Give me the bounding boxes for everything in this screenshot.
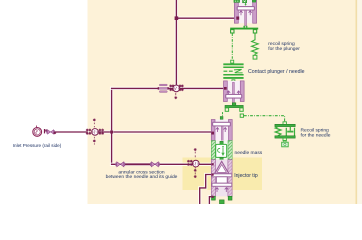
star — [54, 132, 56, 134]
junction A stars — [86, 119, 104, 145]
needle rod green tab — [220, 117, 223, 120]
top piston left port — [236, 17, 239, 20]
wire: riser from junction dot up to plunger branch — [110, 88, 113, 132]
recoil spring for the needle (spring-damper) — [275, 122, 295, 147]
needle mass top tab — [220, 141, 223, 144]
svg-text:for the plunger: for the plunger — [268, 46, 300, 52]
hard stop (Contact plunger / needle) — [223, 60, 243, 82]
bracket 1 (plunger rod) — [230, 26, 258, 33]
bracket 2 (contact rod) — [225, 103, 243, 112]
beige area right border — [356, 0, 358, 204]
top piston walls — [234, 0, 238, 23]
yellow highlight area (injector tip) — [183, 158, 263, 191]
svg-text:between the needle and its gui: between the needle and its guide — [106, 174, 178, 180]
wire: junction A to needle piston — [99, 130, 211, 133]
green rod-port stem — [245, 3, 247, 5]
annular orifice 1 — [115, 162, 125, 167]
junction C circle — [192, 160, 199, 167]
injector tip bottom tabs — [212, 196, 216, 200]
needle piston left port — [211, 132, 214, 135]
injector tip side ports — [212, 163, 214, 165]
contact piston arrows — [227, 91, 230, 96]
top piston rod — [245, 10, 247, 26]
top piston bar — [237, 7, 254, 11]
wire: branch to top piston — [176, 17, 236, 20]
wire: drop from junction dot to annular line — [110, 132, 113, 164]
needle piston walls — [211, 120, 215, 141]
contact piston bore — [227, 81, 240, 102]
needle piston bore — [215, 120, 228, 141]
injector tip box — [216, 177, 227, 183]
contact piston rod — [233, 82, 235, 94]
dash-dot link to needle recoil spring — [240, 114, 243, 117]
beige area right margin — [357, 0, 362, 204]
injector tip hatched walls — [211, 160, 215, 197]
port tick after source — [44, 129, 45, 133]
svg-text:recoil spring: recoil spring — [268, 41, 295, 47]
pressure source (Inlet Pressure) — [33, 126, 42, 137]
star — [45, 129, 47, 131]
svg-text:Contact plunger / needle: Contact plunger / needle — [248, 69, 305, 75]
junction C stars — [187, 148, 196, 177]
junction dot node — [110, 131, 113, 134]
injector tip needle cone — [215, 161, 229, 173]
annular orifice 2 — [150, 162, 160, 167]
injector tip bar 2 — [212, 183, 232, 186]
contact piston walls — [224, 81, 228, 102]
svg-text:for the needle: for the needle — [301, 133, 331, 139]
contact rod lower stub — [233, 98, 235, 105]
injector tip arrows — [215, 188, 218, 193]
svg-text:Injector tip: Injector tip — [234, 173, 258, 179]
junction blob on riser branch — [175, 16, 179, 20]
translational reference (ground) — [284, 141, 286, 142]
injector tip bore — [216, 160, 228, 197]
top piston arrows — [239, 11, 242, 16]
junction A circle — [92, 129, 99, 136]
needle mass block — [216, 144, 227, 157]
wire: vertical from top edge to junction B — [175, 0, 178, 88]
needle mass bottom tab — [220, 157, 223, 160]
svg-text:Inlet Pressure (rail side): Inlet Pressure (rail side) — [13, 143, 62, 148]
wire: annular cross section line — [112, 163, 212, 166]
wire: horizontal to junction B and contact piston — [112, 87, 224, 90]
orifice (inlet) bowtie — [46, 130, 55, 134]
wire: tip side staircase — [200, 175, 212, 205]
wire: thicker between annular orifices — [124, 163, 151, 165]
contact piston bar — [226, 94, 242, 98]
local resistance (three bars) — [158, 84, 169, 92]
injector tip bottom center port — [220, 200, 225, 204]
needle piston arrows — [216, 128, 219, 133]
needle mass hatched walls — [211, 141, 215, 160]
recoil spring for the plunger — [252, 33, 259, 55]
injector tip bar 1 — [212, 174, 232, 177]
svg-text:Recoil spring: Recoil spring — [301, 128, 330, 134]
beige model area — [88, 0, 356, 204]
needle mass inner area — [216, 141, 229, 160]
needle piston bar — [213, 122, 231, 126]
junction B stars — [170, 85, 184, 99]
top piston ports (cut off at top) — [234, 0, 240, 2]
contact piston left port — [224, 87, 227, 90]
junction B circle — [173, 85, 180, 92]
wire: inlet to junction A — [56, 130, 87, 133]
dash-dot link to hard stop — [231, 33, 233, 59]
svg-text:needle mass: needle mass — [235, 150, 263, 156]
top piston (plunger) bore — [238, 0, 253, 23]
needle rod — [221, 126, 223, 142]
dash-dot link to needle rod — [222, 112, 224, 119]
wire: tip bottom left — [209, 197, 212, 205]
